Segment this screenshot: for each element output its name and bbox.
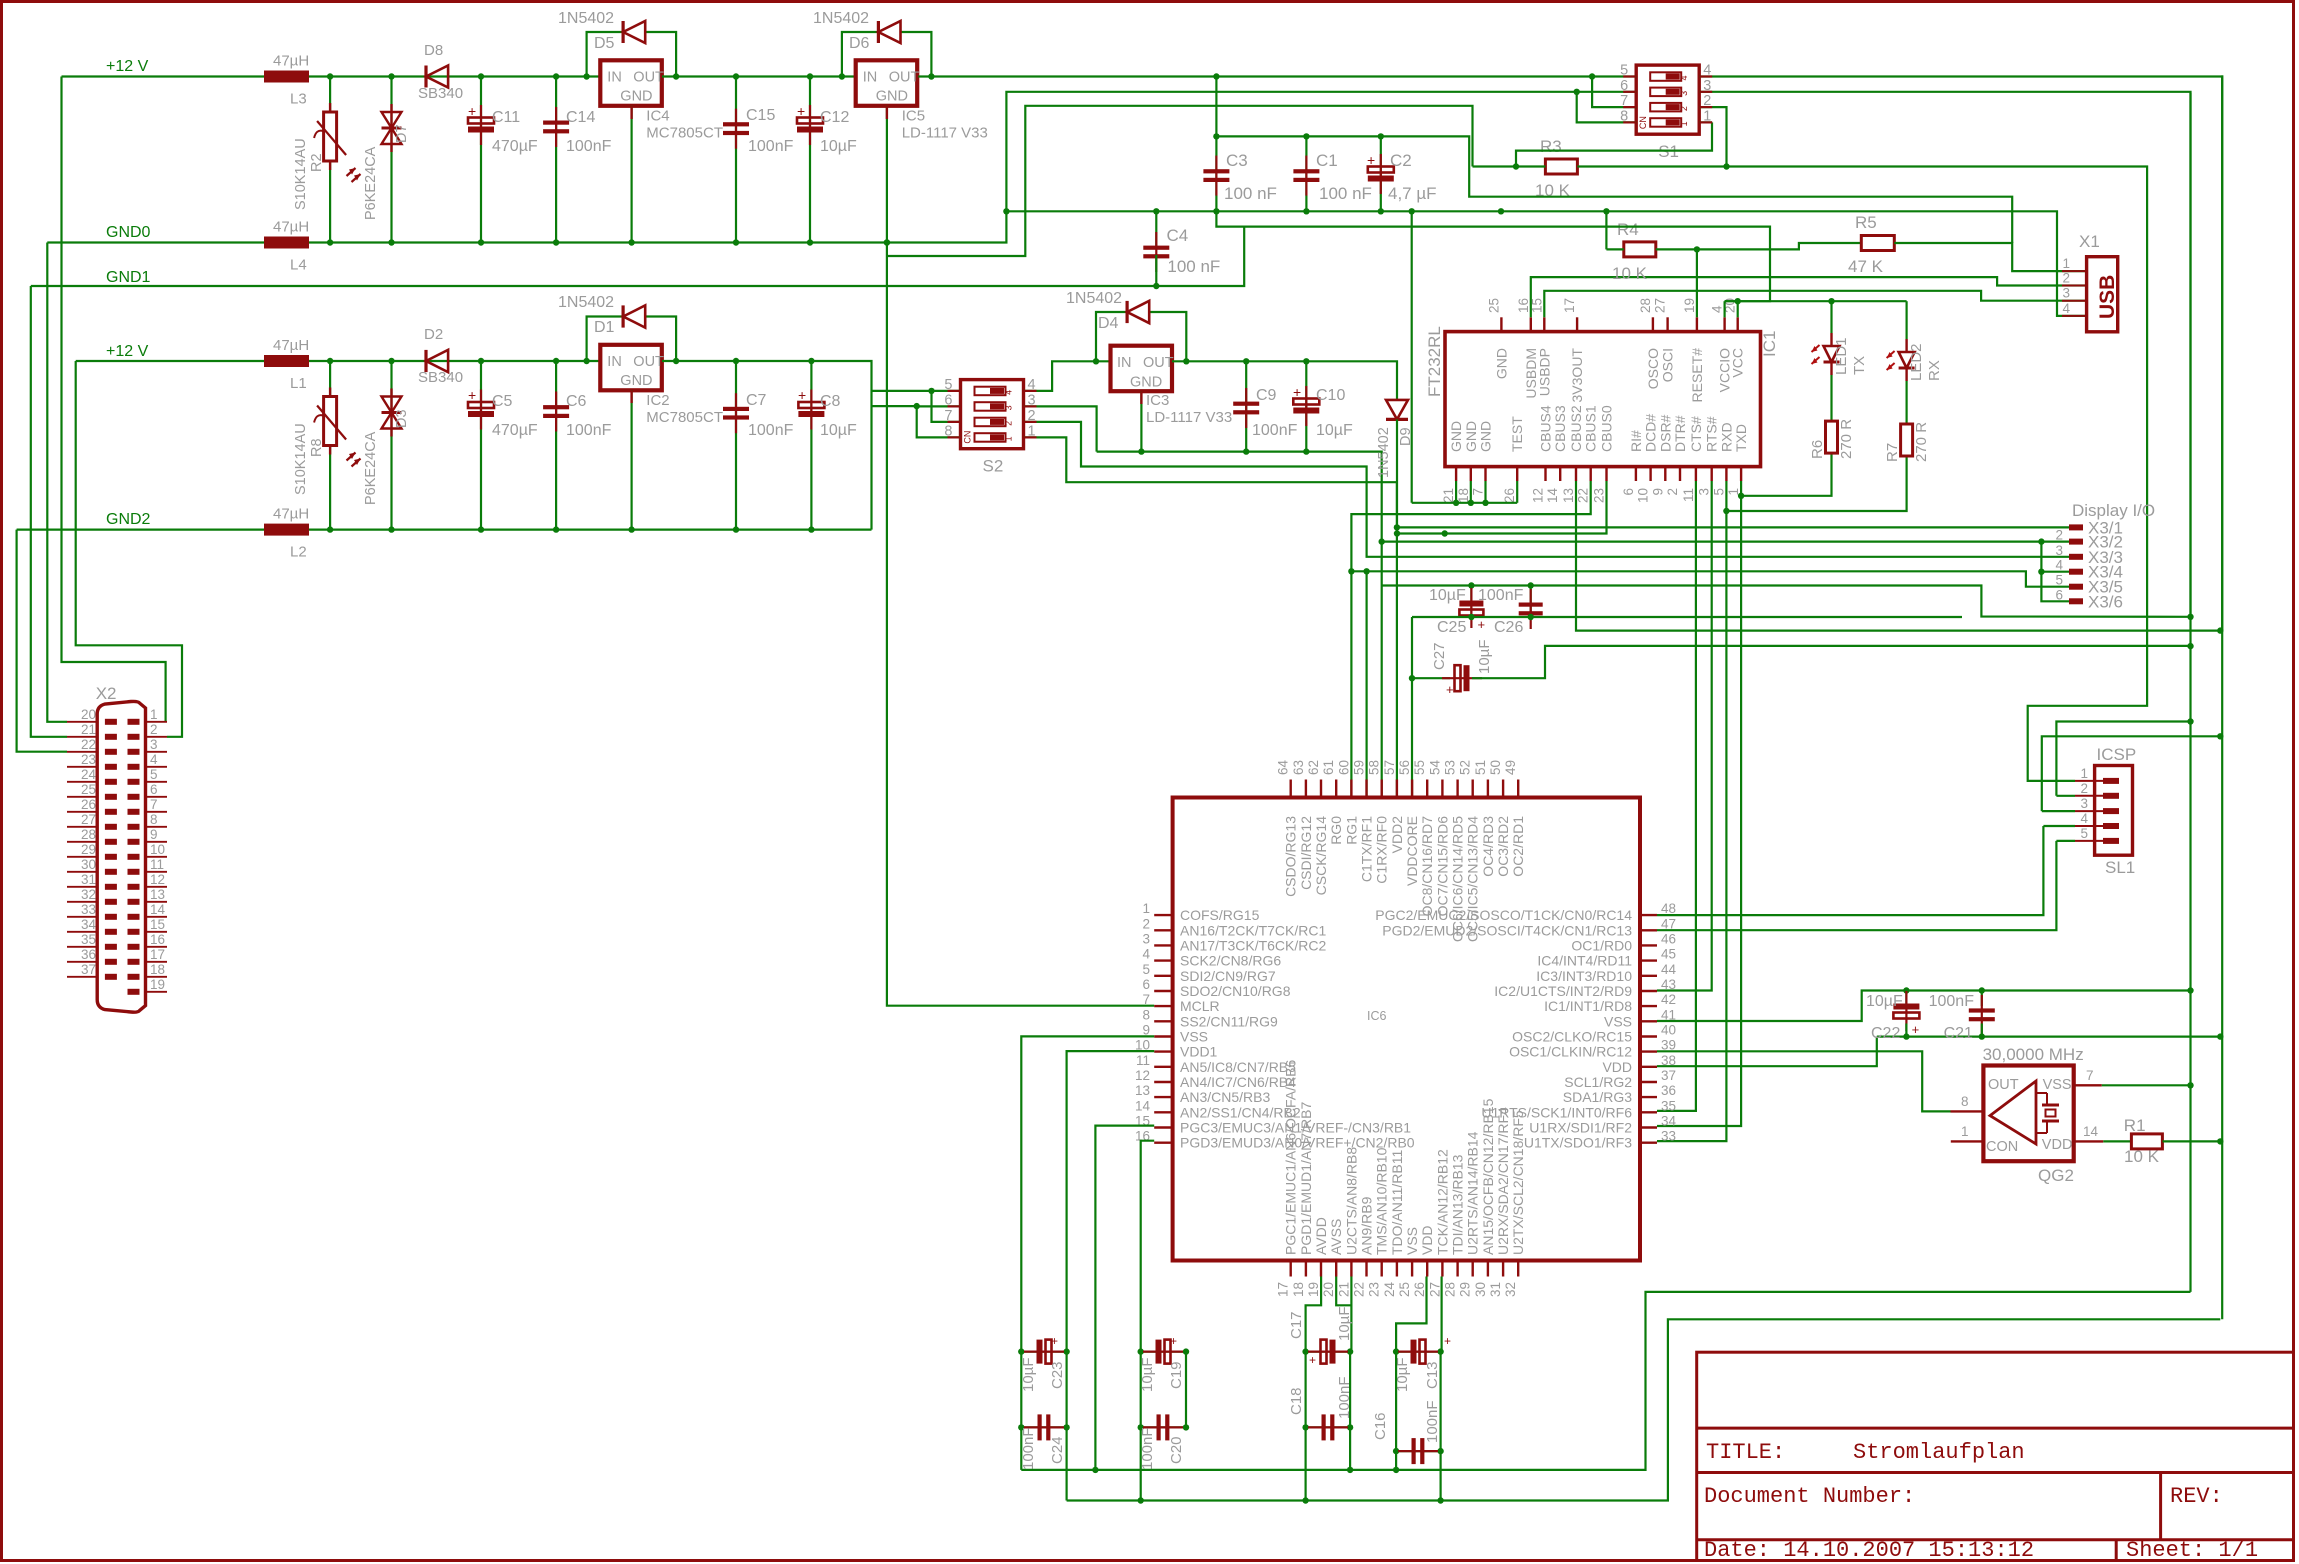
svg-text:GND: GND xyxy=(1448,421,1464,452)
svg-text:5: 5 xyxy=(1711,488,1726,496)
svg-text:R8: R8 xyxy=(309,438,325,457)
svg-text:10µF: 10µF xyxy=(1336,1307,1353,1342)
svg-text:C13: C13 xyxy=(1424,1361,1441,1389)
svg-text:25: 25 xyxy=(1397,1282,1412,1297)
svg-text:33: 33 xyxy=(1661,1129,1676,1144)
svg-text:10µF: 10µF xyxy=(1020,1358,1037,1393)
svg-text:+: + xyxy=(1912,1022,1920,1037)
svg-text:7: 7 xyxy=(1142,992,1150,1007)
svg-text:D4: D4 xyxy=(1098,315,1119,332)
svg-text:MC7805CT: MC7805CT xyxy=(646,124,723,141)
svg-text:28: 28 xyxy=(81,827,96,842)
svg-text:GND: GND xyxy=(876,88,908,104)
svg-text:TDO/AN11/RB11: TDO/AN11/RB11 xyxy=(1389,1149,1405,1255)
svg-text:S2: S2 xyxy=(983,457,1004,476)
svg-text:+12 V: +12 V xyxy=(106,58,149,75)
svg-text:7: 7 xyxy=(150,797,158,812)
svg-text:21: 21 xyxy=(1336,1282,1351,1297)
svg-text:43: 43 xyxy=(1661,977,1676,992)
svg-text:R3: R3 xyxy=(1540,137,1562,156)
svg-text:RG1: RG1 xyxy=(1343,816,1359,845)
svg-text:10µF: 10µF xyxy=(1429,587,1466,604)
svg-text:22: 22 xyxy=(81,737,96,752)
svg-text:CBUS1: CBUS1 xyxy=(1583,405,1599,452)
svg-text:L2: L2 xyxy=(290,544,307,561)
svg-text:CBUS0: CBUS0 xyxy=(1599,405,1615,452)
svg-text:VDD: VDD xyxy=(2042,1137,2073,1153)
svg-text:C19: C19 xyxy=(1168,1361,1185,1389)
svg-text:5: 5 xyxy=(150,767,158,782)
svg-text:18: 18 xyxy=(1291,1282,1306,1297)
svg-text:Display I/O: Display I/O xyxy=(2072,501,2155,520)
svg-text:RTS#: RTS# xyxy=(1704,416,1720,452)
svg-text:17: 17 xyxy=(1562,298,1577,313)
svg-text:C16: C16 xyxy=(1372,1412,1389,1440)
svg-text:IC6: IC6 xyxy=(1367,1009,1387,1023)
svg-text:36: 36 xyxy=(81,947,96,962)
svg-text:C23: C23 xyxy=(1049,1361,1066,1389)
svg-text:31: 31 xyxy=(81,872,96,887)
svg-text:23: 23 xyxy=(1367,1282,1382,1297)
svg-text:IC5: IC5 xyxy=(902,107,925,124)
svg-text:GND0: GND0 xyxy=(106,224,151,241)
svg-text:27: 27 xyxy=(1653,298,1668,313)
svg-text:270 R: 270 R xyxy=(1838,419,1855,459)
svg-text:31: 31 xyxy=(1488,1282,1503,1297)
svg-text:34: 34 xyxy=(1661,1114,1677,1129)
svg-text:27: 27 xyxy=(1427,1282,1442,1297)
svg-text:10: 10 xyxy=(1636,488,1651,503)
svg-text:12: 12 xyxy=(1531,488,1546,503)
svg-text:RG0: RG0 xyxy=(1328,816,1344,845)
svg-text:33: 33 xyxy=(81,902,96,917)
svg-text:1: 1 xyxy=(2080,766,2088,781)
svg-text:DTR#: DTR# xyxy=(1672,415,1688,452)
svg-text:17: 17 xyxy=(1276,1282,1291,1297)
svg-text:C25: C25 xyxy=(1437,619,1466,636)
svg-text:52: 52 xyxy=(1458,760,1473,775)
svg-text:30,0000 MHz: 30,0000 MHz xyxy=(1983,1045,2084,1064)
svg-text:AN16/T2CK/T7CK/RC1: AN16/T2CK/T7CK/RC1 xyxy=(1180,922,1326,938)
svg-text:SDO2/CN10/RG8: SDO2/CN10/RG8 xyxy=(1180,983,1291,999)
svg-text:C17: C17 xyxy=(1288,1311,1305,1339)
svg-text:OUT: OUT xyxy=(1143,355,1174,371)
svg-text:C24: C24 xyxy=(1049,1436,1066,1464)
svg-text:57: 57 xyxy=(1382,760,1397,775)
svg-text:3: 3 xyxy=(1142,931,1150,946)
svg-text:OSC2/CLKO/RC15: OSC2/CLKO/RC15 xyxy=(1512,1029,1632,1045)
svg-text:TXD: TXD xyxy=(1733,424,1749,452)
svg-text:CSCK/RG14: CSCK/RG14 xyxy=(1313,816,1329,896)
svg-text:20: 20 xyxy=(81,707,96,722)
svg-text:SL1: SL1 xyxy=(2105,858,2135,877)
svg-text:14: 14 xyxy=(1135,1098,1151,1113)
svg-text:10: 10 xyxy=(150,842,165,857)
svg-text:IC2/U1CTS/INT2/RD9: IC2/U1CTS/INT2/RD9 xyxy=(1494,983,1632,999)
svg-text:SS2/CN11/RG9: SS2/CN11/RG9 xyxy=(1180,1013,1278,1029)
svg-text:3V3OUT: 3V3OUT xyxy=(1569,348,1585,403)
svg-text:53: 53 xyxy=(1443,760,1458,775)
svg-text:RXD: RXD xyxy=(1718,422,1734,452)
svg-text:R2: R2 xyxy=(309,153,325,172)
svg-text:TMS/AN10/RB10: TMS/AN10/RB10 xyxy=(1374,1147,1390,1255)
svg-text:VDD: VDD xyxy=(1419,1225,1435,1255)
svg-text:3: 3 xyxy=(2055,543,2063,558)
svg-text:L3: L3 xyxy=(290,91,307,108)
svg-text:47µH: 47µH xyxy=(273,506,309,523)
svg-text:100 nF: 100 nF xyxy=(1319,184,1372,203)
svg-text:4: 4 xyxy=(2055,558,2063,573)
svg-text:SB340: SB340 xyxy=(418,369,463,386)
svg-text:9: 9 xyxy=(1650,488,1665,496)
svg-text:C3: C3 xyxy=(1226,151,1248,170)
svg-text:GND1: GND1 xyxy=(106,269,151,286)
svg-text:IC3: IC3 xyxy=(1146,392,1169,409)
svg-text:58: 58 xyxy=(1367,760,1382,775)
svg-text:D8: D8 xyxy=(424,42,443,59)
svg-text:OUT: OUT xyxy=(1988,1077,2019,1093)
svg-text:VSS: VSS xyxy=(1604,1013,1632,1029)
svg-text:RESET#: RESET# xyxy=(1689,348,1705,403)
svg-text:LED2: LED2 xyxy=(1908,343,1925,381)
svg-text:4: 4 xyxy=(1142,947,1150,962)
svg-text:VDD: VDD xyxy=(1602,1059,1632,1075)
svg-text:22: 22 xyxy=(1576,488,1591,503)
svg-text:25: 25 xyxy=(1486,298,1501,313)
svg-text:100nF: 100nF xyxy=(748,422,794,439)
svg-text:10 K: 10 K xyxy=(2124,1147,2160,1166)
svg-text:13: 13 xyxy=(150,887,165,902)
svg-text:10µF: 10µF xyxy=(1866,993,1903,1010)
svg-text:IC2: IC2 xyxy=(646,392,669,409)
svg-text:GND2: GND2 xyxy=(106,511,151,528)
svg-text:10µF: 10µF xyxy=(1476,640,1493,675)
svg-text:C14: C14 xyxy=(566,109,595,126)
svg-text:L4: L4 xyxy=(290,257,307,274)
svg-text:X1: X1 xyxy=(2079,232,2100,251)
svg-text:Stromlaufplan: Stromlaufplan xyxy=(1853,1440,2025,1465)
svg-text:19: 19 xyxy=(1306,1282,1321,1297)
svg-text:MCLR: MCLR xyxy=(1180,998,1220,1014)
svg-text:SB340: SB340 xyxy=(418,85,463,102)
svg-text:Date: 14.10.2007 15:13:12: Date: 14.10.2007 15:13:12 xyxy=(1704,1538,2034,1563)
svg-text:32: 32 xyxy=(81,887,96,902)
svg-text:AN3/CN5/RB3: AN3/CN5/RB3 xyxy=(1180,1089,1270,1105)
svg-text:49: 49 xyxy=(1503,760,1518,775)
svg-text:P6KE24CA: P6KE24CA xyxy=(363,431,379,505)
svg-text:SDA1/RG3: SDA1/RG3 xyxy=(1563,1089,1632,1105)
svg-text:1: 1 xyxy=(1679,121,1689,126)
svg-text:IC1/INT1/RD8: IC1/INT1/RD8 xyxy=(1544,998,1632,1014)
svg-text:9: 9 xyxy=(1142,1023,1150,1038)
svg-text:1: 1 xyxy=(1961,1124,1969,1139)
svg-text:+: + xyxy=(1309,1353,1316,1367)
svg-text:+12 V: +12 V xyxy=(106,343,149,360)
svg-text:10µF: 10µF xyxy=(820,422,857,439)
svg-text:8: 8 xyxy=(150,812,158,827)
svg-text:1N5402: 1N5402 xyxy=(558,294,614,311)
svg-text:OC6/IC6/CN14/RD5: OC6/IC6/CN14/RD5 xyxy=(1450,816,1466,942)
svg-text:X2: X2 xyxy=(96,684,117,703)
svg-text:VSS: VSS xyxy=(2043,1077,2072,1093)
svg-text:DCD#: DCD# xyxy=(1643,414,1659,452)
svg-text:OC2/RD1: OC2/RD1 xyxy=(1510,816,1526,877)
svg-text:TEST: TEST xyxy=(1509,416,1525,452)
svg-text:C27: C27 xyxy=(1431,642,1448,670)
svg-text:REV:: REV: xyxy=(2170,1484,2223,1509)
svg-text:SCL1/RG2: SCL1/RG2 xyxy=(1564,1074,1632,1090)
svg-text:+: + xyxy=(797,103,805,119)
svg-text:10µF: 10µF xyxy=(820,138,857,155)
svg-text:CN: CN xyxy=(963,431,973,444)
svg-text:2: 2 xyxy=(1142,916,1150,931)
svg-text:27: 27 xyxy=(81,812,96,827)
svg-text:CN: CN xyxy=(1638,116,1648,129)
svg-text:CBUS2: CBUS2 xyxy=(1568,405,1584,452)
svg-text:R7: R7 xyxy=(1884,443,1901,462)
svg-text:IN: IN xyxy=(607,69,622,85)
svg-text:VDD1: VDD1 xyxy=(1180,1044,1218,1060)
svg-text:D6: D6 xyxy=(849,35,870,52)
svg-text:24: 24 xyxy=(1382,1282,1397,1298)
svg-text:6: 6 xyxy=(2055,587,2063,602)
svg-text:55: 55 xyxy=(1412,760,1427,775)
svg-text:61: 61 xyxy=(1321,760,1336,775)
svg-text:OC1/RD0: OC1/RD0 xyxy=(1571,937,1632,953)
svg-text:GND: GND xyxy=(1478,421,1494,452)
svg-text:17: 17 xyxy=(150,947,165,962)
svg-text:FT232RL: FT232RL xyxy=(1425,326,1444,397)
svg-text:VDDCORE: VDDCORE xyxy=(1404,816,1420,886)
svg-text:12: 12 xyxy=(1135,1068,1150,1083)
svg-text:23: 23 xyxy=(1592,488,1607,503)
svg-text:100nF: 100nF xyxy=(1478,587,1524,604)
svg-text:OC4/RD3: OC4/RD3 xyxy=(1480,816,1496,877)
svg-text:LED1: LED1 xyxy=(1833,337,1850,375)
svg-text:Sheet: 1/1: Sheet: 1/1 xyxy=(2126,1538,2258,1563)
svg-text:46: 46 xyxy=(1661,931,1676,946)
svg-text:5: 5 xyxy=(1142,962,1150,977)
svg-text:C26: C26 xyxy=(1494,619,1523,636)
svg-text:14: 14 xyxy=(150,902,166,917)
svg-text:36: 36 xyxy=(1661,1083,1676,1098)
svg-text:19: 19 xyxy=(150,977,165,992)
svg-text:29: 29 xyxy=(81,842,96,857)
svg-text:AN5/IC8/CN7/RB5: AN5/IC8/CN7/RB5 xyxy=(1180,1059,1296,1075)
svg-text:100nF: 100nF xyxy=(748,138,794,155)
svg-text:QG2: QG2 xyxy=(2038,1166,2074,1185)
svg-text:C5: C5 xyxy=(492,393,513,410)
svg-text:30: 30 xyxy=(81,857,96,872)
svg-text:PGC2/EMUC2/SOSCO/T1CK/CN0/RC14: PGC2/EMUC2/SOSCO/T1CK/CN0/RC14 xyxy=(1375,907,1632,923)
svg-text:26: 26 xyxy=(81,797,96,812)
svg-text:GND: GND xyxy=(1493,348,1509,379)
svg-text:16: 16 xyxy=(150,932,165,947)
svg-text:22: 22 xyxy=(1352,1282,1367,1297)
svg-text:4: 4 xyxy=(1004,390,1014,395)
svg-text:C22: C22 xyxy=(1871,1025,1900,1042)
svg-text:4,7 µF: 4,7 µF xyxy=(1388,184,1437,203)
svg-text:R1: R1 xyxy=(2124,1116,2146,1135)
svg-text:IC3/INT3/RD10: IC3/INT3/RD10 xyxy=(1536,968,1632,984)
svg-text:PGD1/EMUD1/AN7/RB7: PGD1/EMUD1/AN7/RB7 xyxy=(1298,1102,1314,1255)
svg-text:OSCI: OSCI xyxy=(1660,348,1676,382)
svg-text:44: 44 xyxy=(1661,962,1677,977)
svg-text:470µF: 470µF xyxy=(492,422,538,439)
svg-text:15: 15 xyxy=(150,917,165,932)
svg-text:37: 37 xyxy=(1661,1068,1676,1083)
svg-text:6: 6 xyxy=(1142,977,1150,992)
svg-text:RX: RX xyxy=(1926,360,1943,381)
svg-text:50: 50 xyxy=(1488,760,1503,775)
svg-text:37: 37 xyxy=(81,962,96,977)
svg-text:100nF: 100nF xyxy=(1252,422,1298,439)
svg-text:AVDD: AVDD xyxy=(1313,1217,1329,1255)
svg-text:28: 28 xyxy=(1638,298,1653,313)
svg-text:+: + xyxy=(1444,1334,1451,1348)
svg-text:11: 11 xyxy=(1681,488,1696,502)
svg-text:U1TX/SDO1/RF3: U1TX/SDO1/RF3 xyxy=(1524,1135,1632,1151)
svg-text:R4: R4 xyxy=(1617,220,1639,239)
svg-text:X3/6: X3/6 xyxy=(2088,592,2123,611)
svg-text:2: 2 xyxy=(1004,421,1014,426)
svg-text:+: + xyxy=(468,387,476,403)
svg-text:20: 20 xyxy=(1321,1282,1336,1297)
svg-text:R6: R6 xyxy=(1809,440,1826,459)
svg-text:21: 21 xyxy=(81,722,96,737)
svg-text:U2RTS/AN14/RB14: U2RTS/AN14/RB14 xyxy=(1465,1131,1481,1255)
svg-text:COFS/RG15: COFS/RG15 xyxy=(1180,907,1260,923)
svg-text:13: 13 xyxy=(1135,1083,1150,1098)
svg-text:OC3/RD2: OC3/RD2 xyxy=(1495,816,1511,877)
svg-text:D7: D7 xyxy=(394,124,410,143)
svg-text:D1: D1 xyxy=(594,319,615,336)
svg-text:CBUS4: CBUS4 xyxy=(1538,405,1554,452)
svg-text:USBDP: USBDP xyxy=(1536,348,1552,396)
svg-text:13: 13 xyxy=(1561,488,1576,503)
svg-text:D2: D2 xyxy=(424,326,443,343)
svg-text:+: + xyxy=(1293,384,1301,400)
svg-text:2: 2 xyxy=(2080,781,2088,796)
svg-text:C8: C8 xyxy=(820,393,841,410)
svg-text:L1: L1 xyxy=(290,375,307,392)
svg-text:R5: R5 xyxy=(1855,213,1877,232)
svg-text:MC7805CT: MC7805CT xyxy=(646,409,723,426)
svg-text:GND: GND xyxy=(1463,421,1479,452)
svg-text:D5: D5 xyxy=(594,35,615,52)
svg-text:AN9/RB9: AN9/RB9 xyxy=(1359,1196,1375,1255)
svg-text:10µF: 10µF xyxy=(1316,422,1353,439)
svg-text:C18: C18 xyxy=(1288,1387,1305,1415)
svg-text:4: 4 xyxy=(2062,301,2070,316)
svg-text:TCK/AN12/RB12: TCK/AN12/RB12 xyxy=(1434,1149,1450,1255)
svg-text:19: 19 xyxy=(1682,298,1697,313)
svg-text:+: + xyxy=(1051,1334,1058,1348)
svg-text:7: 7 xyxy=(1471,488,1486,496)
svg-text:AN17/T3CK/T6CK/RC2: AN17/T3CK/T6CK/RC2 xyxy=(1180,937,1326,953)
svg-text:+: + xyxy=(1367,152,1375,168)
svg-text:+: + xyxy=(1170,1334,1177,1348)
svg-text:42: 42 xyxy=(1661,992,1676,1007)
svg-text:1N5402: 1N5402 xyxy=(1066,290,1122,307)
svg-text:47µH: 47µH xyxy=(273,219,309,236)
svg-text:3: 3 xyxy=(1697,488,1712,496)
svg-text:40: 40 xyxy=(1661,1023,1676,1038)
svg-text:C12: C12 xyxy=(820,109,849,126)
svg-text:26: 26 xyxy=(1412,1282,1427,1297)
svg-text:OC8/CN16/RD7: OC8/CN16/RD7 xyxy=(1419,816,1435,917)
svg-text:VSS: VSS xyxy=(1404,1227,1420,1255)
svg-text:OSCO: OSCO xyxy=(1645,348,1661,389)
svg-text:24: 24 xyxy=(81,767,97,782)
svg-text:4: 4 xyxy=(1679,75,1689,80)
svg-text:1N5402: 1N5402 xyxy=(1376,427,1392,478)
svg-text:C1RX/RF0: C1RX/RF0 xyxy=(1374,816,1390,884)
svg-text:C2: C2 xyxy=(1390,151,1412,170)
svg-text:51: 51 xyxy=(1473,760,1488,775)
svg-text:35: 35 xyxy=(81,932,96,947)
svg-text:CTS#: CTS# xyxy=(1688,416,1704,452)
svg-text:35: 35 xyxy=(1661,1098,1676,1113)
svg-text:TX: TX xyxy=(1851,356,1868,375)
svg-text:VSS: VSS xyxy=(1180,1029,1208,1045)
svg-text:63: 63 xyxy=(1291,760,1306,775)
svg-text:Document Number:: Document Number: xyxy=(1704,1484,1915,1509)
svg-text:3: 3 xyxy=(1004,405,1014,410)
svg-text:30: 30 xyxy=(1473,1282,1488,1297)
svg-text:U2RX/SDA2/CN17/RF4: U2RX/SDA2/CN17/RF4 xyxy=(1495,1107,1511,1255)
svg-text:1N5402: 1N5402 xyxy=(813,10,869,27)
svg-text:OSC1/CLKIN/RC12: OSC1/CLKIN/RC12 xyxy=(1509,1044,1632,1060)
svg-text:D3: D3 xyxy=(394,409,410,428)
svg-text:48: 48 xyxy=(1661,901,1676,916)
svg-text:3: 3 xyxy=(1679,91,1689,96)
svg-text:IN: IN xyxy=(607,354,622,370)
svg-text:CSDI/RG12: CSDI/RG12 xyxy=(1298,816,1314,890)
svg-text:2: 2 xyxy=(2062,271,2070,286)
svg-text:IN: IN xyxy=(1117,355,1132,371)
svg-text:2: 2 xyxy=(1679,106,1689,111)
svg-text:S10K14AU: S10K14AU xyxy=(293,423,309,495)
svg-text:DSR#: DSR# xyxy=(1657,414,1673,452)
svg-text:47µH: 47µH xyxy=(273,337,309,354)
svg-text:100 nF: 100 nF xyxy=(1224,184,1277,203)
svg-text:100nF: 100nF xyxy=(1020,1427,1037,1470)
svg-text:1: 1 xyxy=(2062,256,2070,271)
svg-text:60: 60 xyxy=(1336,760,1351,775)
svg-text:TITLE:: TITLE: xyxy=(1706,1440,1785,1465)
svg-text:CSDO/RG13: CSDO/RG13 xyxy=(1283,816,1299,897)
svg-text:S10K14AU: S10K14AU xyxy=(293,138,309,210)
svg-text:28: 28 xyxy=(1443,1282,1458,1297)
svg-text:VDD2: VDD2 xyxy=(1389,816,1405,854)
svg-text:100 nF: 100 nF xyxy=(1167,257,1220,276)
svg-text:CON: CON xyxy=(1986,1139,2018,1155)
svg-text:1: 1 xyxy=(150,707,158,722)
svg-text:TDI/AN13/RB13: TDI/AN13/RB13 xyxy=(1450,1154,1466,1255)
svg-text:+: + xyxy=(1446,682,1454,697)
svg-text:2: 2 xyxy=(2055,528,2063,543)
svg-text:3: 3 xyxy=(2080,796,2088,811)
svg-text:USB: USB xyxy=(2096,275,2119,319)
svg-text:PGC1/EMUC1/AN6/OCFA/RB6: PGC1/EMUC1/AN6/OCFA/RB6 xyxy=(1283,1060,1299,1255)
svg-text:23: 23 xyxy=(81,752,96,767)
svg-text:3: 3 xyxy=(2062,286,2070,301)
svg-text:8: 8 xyxy=(1961,1094,1969,1109)
svg-text:34: 34 xyxy=(81,917,97,932)
svg-text:100nF: 100nF xyxy=(1424,1400,1441,1443)
svg-text:C20: C20 xyxy=(1168,1436,1185,1464)
